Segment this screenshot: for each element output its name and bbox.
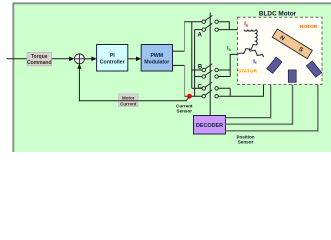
svg-text:Sensor: Sensor [177, 109, 193, 114]
wire: phase C to motor [218, 57, 263, 96]
switch S6 (C low) [202, 95, 205, 98]
svg-text:C: C [198, 85, 203, 91]
svg-text:Command: Command [27, 60, 51, 66]
summing junction [74, 54, 84, 64]
motor current label box [119, 94, 139, 106]
wire: top rail bus [191, 22, 193, 89]
wire: commutation line to decoder [209, 13, 211, 116]
wire: PWM output 1 [173, 50, 185, 52]
switch S2 (A low) [202, 28, 205, 31]
svg-text:Modulator: Modulator [144, 60, 169, 66]
wire: hall sensor 1 to decoder [226, 73, 271, 118]
wire: PI to PWM [128, 58, 137, 60]
wire: phase C top row [192, 87, 202, 89]
switch S1 (A high) [202, 20, 205, 23]
panel border (top+left) [13, 3, 331, 152]
wire: hall sensor 3 to decoder [226, 75, 318, 131]
wire: phase B to motor [218, 54, 236, 76]
wire: summer to PI controller [84, 58, 92, 60]
svg-text:ROTOR: ROTOR [300, 24, 318, 30]
wire: phase A top row [184, 21, 202, 23]
switch S4 (B low) [202, 75, 205, 78]
svg-text:A: A [198, 33, 203, 39]
torque command label box [27, 52, 52, 66]
rotor magnet [272, 29, 312, 59]
svg-text:PWM: PWM [150, 53, 163, 59]
page background [0, 0, 331, 152]
svg-text:BLDC Motor: BLDC Motor [259, 11, 297, 18]
hall sensor H1 [267, 57, 282, 73]
green panel [13, 3, 331, 153]
svg-text:Current: Current [120, 101, 137, 106]
node: current sensor tap [187, 94, 192, 99]
stator winding phase B coil [236, 45, 255, 55]
BLDC motor box [238, 17, 323, 84]
hall sensor H2 [288, 70, 296, 82]
wire: phase A to motor [218, 22, 245, 30]
switch S3 (B high) [202, 68, 205, 71]
svg-text:Ib: Ib [227, 46, 232, 52]
svg-text:Controller: Controller [100, 60, 125, 66]
wire: hall sensor 2 to decoder [226, 82, 293, 124]
wire: PWM output 2 [173, 64, 185, 66]
stator winding phase A coil [244, 30, 256, 32]
PWM modulator U2 [141, 45, 172, 72]
wire: phase B bottom row [195, 76, 203, 78]
svg-text:DECODER: DECODER [196, 123, 223, 129]
wire: phase C bottom row with current sensor node [185, 95, 203, 97]
PI controller U1 [97, 45, 128, 72]
svg-text:STATOR: STATOR [238, 69, 257, 75]
svg-text:Ic: Ic [253, 59, 257, 65]
svg-text:Motor: Motor [122, 95, 135, 100]
switch S5 (C high) [202, 87, 205, 90]
wire: bottom rail bus [194, 30, 196, 97]
decoder U3 [194, 116, 226, 135]
hall sensor H3 [306, 61, 321, 77]
wire: torque command to summer [52, 58, 71, 60]
svg-text:Sensor: Sensor [238, 139, 254, 144]
svg-text:PI: PI [110, 53, 115, 59]
svg-text:B: B [198, 65, 203, 71]
wire: current feedback to summer [79, 64, 189, 101]
wire: phase B top row [192, 69, 202, 71]
wire: input command line [7, 58, 28, 60]
wire: phase A bottom row [195, 29, 203, 31]
stator winding phase C coil [249, 49, 264, 58]
